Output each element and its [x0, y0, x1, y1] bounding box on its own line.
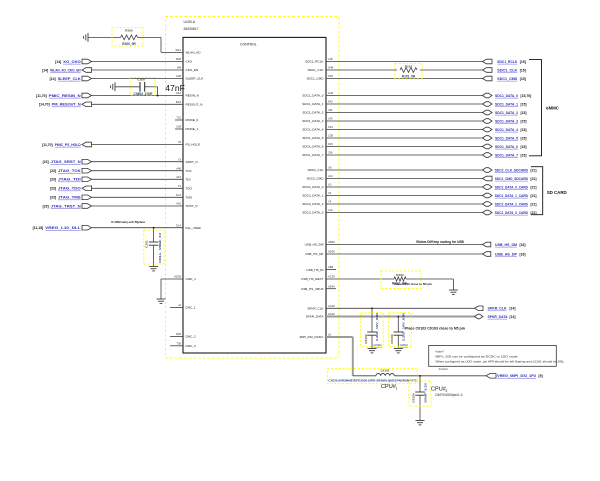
svg-text:USB_HS_ID: USB_HS_ID	[306, 268, 324, 272]
svg-text:C0104: C0104	[412, 393, 416, 402]
svg-text:CDLL_VREF_1V: CDLL_VREF_1V	[158, 232, 162, 263]
svg-text:SDC1_DATA_7: SDC1_DATA_7	[495, 153, 518, 157]
svg-text:SDC1_CLK: SDC1_CLK	[497, 68, 517, 72]
svg-text:SLEEP_CLK: SLEEP_CLK	[186, 77, 205, 81]
svg-text:[15]: [15]	[521, 145, 527, 149]
svg-text:SDC2_DATA_0_CARD: SDC2_DATA_0_CARD	[495, 185, 529, 189]
svg-text:SDC2_CLK_SDCARD: SDC2_CLK_SDCARD	[495, 168, 529, 172]
svg-text:A42: A42	[176, 202, 181, 206]
svg-text:0.05mm(-e0.5)dev: 0.05mm(-e0.5)dev	[111, 220, 145, 224]
svg-text:SDC2_DATA_1: SDC2_DATA_1	[302, 194, 323, 198]
svg-text:[23]: [23]	[43, 204, 49, 208]
svg-text:SDC2_CLK: SDC2_CLK	[308, 168, 325, 172]
svg-text:DNC_2: DNC_2	[186, 335, 196, 339]
svg-text:L0101: L0101	[381, 369, 390, 373]
svg-text:B48: B48	[176, 332, 181, 336]
svg-text:[21]: [21]	[531, 194, 537, 198]
svg-text:T38: T38	[176, 341, 181, 345]
svg-text:SDC1_DATA_2: SDC1_DATA_2	[495, 111, 518, 115]
svg-text:SDC1_DATA_6: SDC1_DATA_6	[495, 145, 518, 149]
svg-text:C38: C38	[328, 134, 333, 138]
svg-text:JTAG_TDI: JTAG_TDI	[58, 178, 81, 182]
svg-text:0.2mm: 0.2mm	[439, 367, 449, 371]
svg-text:GND2: GND2	[400, 343, 409, 347]
svg-text:DNC_3: DNC_3	[186, 344, 196, 348]
svg-text:SDC1_DATA_3: SDC1_DATA_3	[495, 119, 518, 123]
svg-text:J34: J34	[328, 108, 333, 112]
svg-text:U48: U48	[176, 74, 181, 78]
svg-text:[15]: [15]	[521, 128, 527, 132]
svg-text:Y3: Y3	[178, 157, 182, 161]
svg-text:[15]: [15]	[520, 60, 526, 64]
svg-text:JTAG_TCK: JTAG_TCK	[58, 169, 81, 173]
svg-text:eMMC: eMMC	[546, 106, 560, 111]
svg-text:47nF: 47nF	[165, 84, 185, 93]
svg-text:[16]: [16]	[520, 243, 526, 247]
svg-text:T22: T22	[176, 116, 181, 120]
svg-text:AD40: AD40	[328, 284, 335, 288]
svg-text:[11,70]: [11,70]	[36, 94, 47, 98]
svg-text:1: 1	[396, 386, 398, 390]
svg-text:L38: L38	[328, 57, 333, 61]
svg-text:DNC_1: DNC_1	[186, 306, 196, 310]
svg-text:AB48: AB48	[328, 240, 335, 244]
svg-text:SDC1_DATA_0: SDC1_DATA_0	[495, 94, 518, 98]
svg-text:MODE_1: MODE_1	[186, 127, 199, 131]
svg-text:CONTROL: CONTROL	[240, 43, 257, 47]
svg-text:SDC1_DATA_7: SDC1_DATA_7	[302, 153, 323, 157]
svg-text:[9]: [9]	[539, 374, 543, 378]
svg-text:TRST_N: TRST_N	[186, 204, 198, 208]
svg-text:[23]: [23]	[50, 178, 56, 182]
svg-text:SDC2_DATA_2: SDC2_DATA_2	[302, 202, 323, 206]
svg-text:C0603_47NF: C0603_47NF	[134, 92, 153, 96]
svg-text:JTAG_SRST_N: JTAG_SRST_N	[51, 160, 81, 164]
svg-text:R100: R100	[125, 29, 133, 33]
svg-text:[21]: [21]	[531, 211, 537, 215]
svg-text:SPKR_DATA: SPKR_DATA	[306, 315, 325, 319]
svg-text:PM_RESOUT_N: PM_RESOUT_N	[52, 103, 81, 107]
svg-text:W8: W8	[177, 66, 182, 70]
svg-text:[15]: [15]	[520, 68, 526, 72]
svg-text:[15]: [15]	[521, 111, 527, 115]
svg-text:T3: T3	[178, 184, 182, 188]
svg-text:MODE_0: MODE_0	[186, 118, 199, 122]
svg-text:CKO_EN: CKO_EN	[186, 68, 199, 72]
svg-text:SDC1_CMD: SDC1_CMD	[497, 77, 517, 81]
svg-text:[16]: [16]	[520, 252, 526, 256]
svg-text:R101_0R: R101_0R	[402, 74, 416, 78]
svg-text:TDI: TDI	[186, 178, 191, 182]
svg-text:SPKR_DATA: SPKR_DATA	[488, 315, 508, 319]
svg-text:[21]: [21]	[531, 177, 537, 181]
svg-text:L10: L10	[328, 208, 333, 212]
svg-text:SDC1_CMD: SDC1_CMD	[306, 77, 324, 81]
svg-text:USB_HS_DP: USB_HS_DP	[495, 252, 518, 256]
svg-text:TDO: TDO	[186, 187, 193, 191]
svg-text:Y4: Y4	[328, 200, 332, 204]
svg-text:Note!!: Note!!	[436, 350, 444, 354]
svg-text:AD36: AD36	[328, 250, 335, 254]
svg-text:PMIC_PS_HOLD: PMIC_PS_HOLD	[55, 143, 81, 147]
svg-text:A48: A48	[176, 166, 181, 170]
svg-text:[21]: [21]	[531, 185, 537, 189]
svg-text:L34: L34	[328, 174, 333, 178]
svg-text:K34: K34	[328, 125, 333, 129]
svg-text:SRST_N: SRST_N	[186, 160, 198, 164]
svg-text:CPU#: CPU#	[431, 387, 447, 393]
svg-text:F36: F36	[328, 142, 333, 146]
svg-text:AC2: AC2	[176, 193, 182, 197]
svg-text:WLAN_XO_CKO_EN: WLAN_XO_CKO_EN	[50, 68, 81, 72]
svg-text:SDC1_DATA_2: SDC1_DATA_2	[302, 111, 323, 115]
svg-text:SDC1_DATA_5: SDC1_DATA_5	[302, 136, 323, 140]
svg-text:[15]: [15]	[521, 136, 527, 140]
svg-text:RESIN_N: RESIN_N	[186, 94, 199, 98]
svg-text:JTAG_TMS: JTAG_TMS	[58, 196, 81, 200]
svg-text:[14]: [14]	[510, 307, 516, 311]
svg-text:[11,15]: [11,15]	[33, 226, 44, 230]
svg-text:AB8: AB8	[328, 265, 334, 269]
svg-text:SDC2_DATA_3_CARD: SDC2_DATA_3_CARD	[495, 211, 529, 215]
svg-text:SDC2_CMD: SDC2_CMD	[306, 177, 324, 181]
svg-text:[14]: [14]	[55, 60, 61, 64]
svg-text:USB_HS_DM: USB_HS_DM	[495, 243, 517, 247]
svg-text:[15]: [15]	[521, 153, 527, 157]
svg-text:SDC1_RCLK: SDC1_RCLK	[305, 60, 324, 64]
svg-text:AA40: AA40	[328, 312, 335, 316]
svg-text:[21]: [21]	[531, 202, 537, 206]
svg-text:SD CARD: SD CARD	[547, 190, 567, 195]
svg-text:XO_CKO: XO_CKO	[63, 60, 81, 64]
svg-text:SDC2_DATA_1_CARD: SDC2_DATA_1_CARD	[495, 194, 529, 198]
svg-text:K38: K38	[328, 74, 333, 78]
svg-text:CPU#: CPU#	[381, 384, 397, 390]
svg-text:U6: U6	[328, 166, 332, 170]
svg-text:SDC1_DATA_0: SDC1_DATA_0	[302, 94, 323, 98]
svg-text:DLL_VREF: DLL_VREF	[186, 226, 202, 230]
svg-text:TCK: TCK	[186, 169, 193, 173]
svg-text:K42: K42	[328, 100, 333, 104]
svg-text:C101: C101	[145, 240, 149, 248]
svg-text:2.2uF_10V_X5R: 2.2uF_10V_X5R	[375, 312, 379, 341]
svg-text:TMS: TMS	[186, 196, 193, 200]
svg-text:100nF_6.3V: 100nF_6.3V	[424, 382, 428, 403]
svg-text:C0103: C0103	[390, 334, 394, 343]
svg-text:MIPI_DSI_DCDC: MIPI_DSI_DCDC	[300, 335, 325, 339]
svg-text:U28: U28	[176, 125, 181, 129]
svg-text:L8: L8	[328, 333, 331, 337]
svg-text:Y8: Y8	[178, 140, 182, 144]
svg-text:WLAN_AD: WLAN_AD	[186, 51, 202, 55]
svg-text:C0102: C0102	[364, 334, 368, 343]
svg-text:[23]: [23]	[50, 196, 56, 200]
svg-text:SDC1_DATA_1: SDC1_DATA_1	[495, 102, 518, 106]
svg-text:VREG_MIPI_DSI_1P2: VREG_MIPI_DSI_1P2	[497, 374, 536, 378]
svg-text:V4: V4	[328, 191, 332, 195]
svg-text:SDC1_DATA_4: SDC1_DATA_4	[495, 128, 518, 132]
svg-text:[14]: [14]	[50, 77, 56, 81]
svg-text:J40: J40	[328, 117, 333, 121]
svg-text:R100_0R: R100_0R	[122, 42, 136, 46]
svg-text:[23]: [23]	[50, 187, 56, 191]
svg-text:SDC1_DATA_3: SDC1_DATA_3	[302, 119, 323, 123]
svg-text:[21]: [21]	[531, 168, 537, 172]
svg-text:U2: U2	[328, 183, 332, 187]
svg-text:90ohm Diff Imp routing for USB: 90ohm Diff Imp routing for USB	[416, 240, 464, 244]
svg-text:JTAG_TDO: JTAG_TDO	[58, 187, 81, 191]
svg-text:R102: R102	[396, 273, 404, 277]
svg-text:SDC1_DATA_1: SDC1_DATA_1	[302, 102, 323, 106]
svg-text:BA4: BA4	[176, 100, 182, 104]
svg-text:G40: G40	[328, 91, 334, 95]
svg-text:[14]: [14]	[510, 315, 516, 319]
svg-text:[14,70]: [14,70]	[39, 103, 50, 107]
svg-text:SPKR_CLK: SPKR_CLK	[488, 307, 507, 311]
svg-text:[15]: [15]	[521, 119, 527, 123]
svg-text:RESOUT_N: RESOUT_N	[186, 103, 203, 107]
svg-text:AC36: AC36	[328, 275, 335, 279]
svg-text:USB_HS_REXT: USB_HS_REXT	[301, 277, 323, 281]
svg-text:CKO: CKO	[186, 60, 193, 64]
svg-text:[14]: [14]	[42, 68, 48, 72]
svg-text:M48: M48	[176, 57, 182, 61]
svg-text:Place R102 close to N5 pin: Place R102 close to N5 pin	[394, 282, 432, 286]
svg-text:J36: J36	[328, 151, 333, 155]
svg-text:SDC2_DATA_2_CARD: SDC2_DATA_2_CARD	[495, 202, 529, 206]
svg-text:[15]: [15]	[521, 102, 527, 106]
svg-text:G48: G48	[328, 66, 334, 70]
svg-text:[23]: [23]	[50, 169, 56, 173]
svg-text:USB_HS_DP: USB_HS_DP	[305, 252, 323, 256]
svg-text:CIG21H2R2MNE/DFE252012PD-2R2M/: CIG21H2R2MNE/DFE252012PD-2R2M/LQM21PN2R2…	[328, 379, 416, 383]
svg-text:SLEEP_CLK: SLEEP_CLK	[58, 77, 81, 81]
svg-text:SDC2_CMD_SDCARD: SDC2_CMD_SDCARD	[495, 177, 529, 181]
svg-text:10nF/0402/6pin/1.4: 10nF/0402/6pin/1.4	[435, 393, 463, 397]
svg-text:SDC2_DATA_0: SDC2_DATA_0	[302, 185, 323, 189]
svg-text:J1: J1	[178, 303, 181, 307]
svg-text:GND2: GND2	[373, 343, 382, 347]
svg-text:SDC2_DATA_3: SDC2_DATA_3	[302, 211, 323, 215]
svg-text:JTAG_TRST_N: JTAG_TRST_N	[51, 204, 81, 208]
svg-text:SDC1_DATA_4: SDC1_DATA_4	[302, 128, 323, 132]
svg-text:G14: G14	[176, 223, 182, 227]
svg-text:SDC1_DATA_5: SDC1_DATA_5	[495, 136, 518, 140]
svg-text:[11,70]: [11,70]	[42, 143, 53, 147]
svg-text:Place C0102 C0103 close to N5: Place C0102 C0103 close to N5 pin	[405, 327, 465, 331]
svg-text:W13: W13	[175, 48, 181, 52]
svg-text:[15,70]: [15,70]	[521, 94, 532, 98]
svg-text:26200617: 26200617	[184, 27, 199, 31]
svg-text:VREG_L10_DLL: VREG_L10_DLL	[45, 226, 81, 230]
svg-text:[15]: [15]	[520, 77, 526, 81]
svg-text:PS_HOLD: PS_HOLD	[186, 143, 201, 147]
svg-text:A16: A16	[176, 175, 181, 179]
svg-text:When configured as LDO mode, p: When configured as LDO mode, pin AF9 sho…	[436, 360, 566, 364]
svg-text:PMIC_RESIN_N: PMIC_RESIN_N	[49, 94, 81, 98]
svg-text:SDC1_DATA_6: SDC1_DATA_6	[302, 145, 323, 149]
svg-text:C100: C100	[137, 78, 145, 82]
svg-text:AD38: AD38	[174, 275, 181, 279]
svg-text:USB_HS_DM: USB_HS_DM	[305, 243, 324, 247]
svg-text:SPKR_CLK: SPKR_CLK	[307, 307, 324, 311]
svg-text:MIPI_ DSI can be configured as: MIPI_ DSI can be configured as DCDC or L…	[436, 354, 519, 358]
svg-text:SDC1_CLK: SDC1_CLK	[308, 68, 325, 72]
svg-text:[23]: [23]	[43, 160, 49, 164]
svg-text:SDC1_RCLK: SDC1_RCLK	[497, 60, 517, 64]
svg-text:GND_1: GND_1	[186, 277, 197, 281]
svg-text:R101: R101	[405, 65, 413, 69]
svg-text:U100-A: U100-A	[184, 20, 196, 24]
svg-text:AA48: AA48	[328, 304, 335, 308]
svg-text:USB_HS_VBUS: USB_HS_VBUS	[301, 287, 324, 291]
